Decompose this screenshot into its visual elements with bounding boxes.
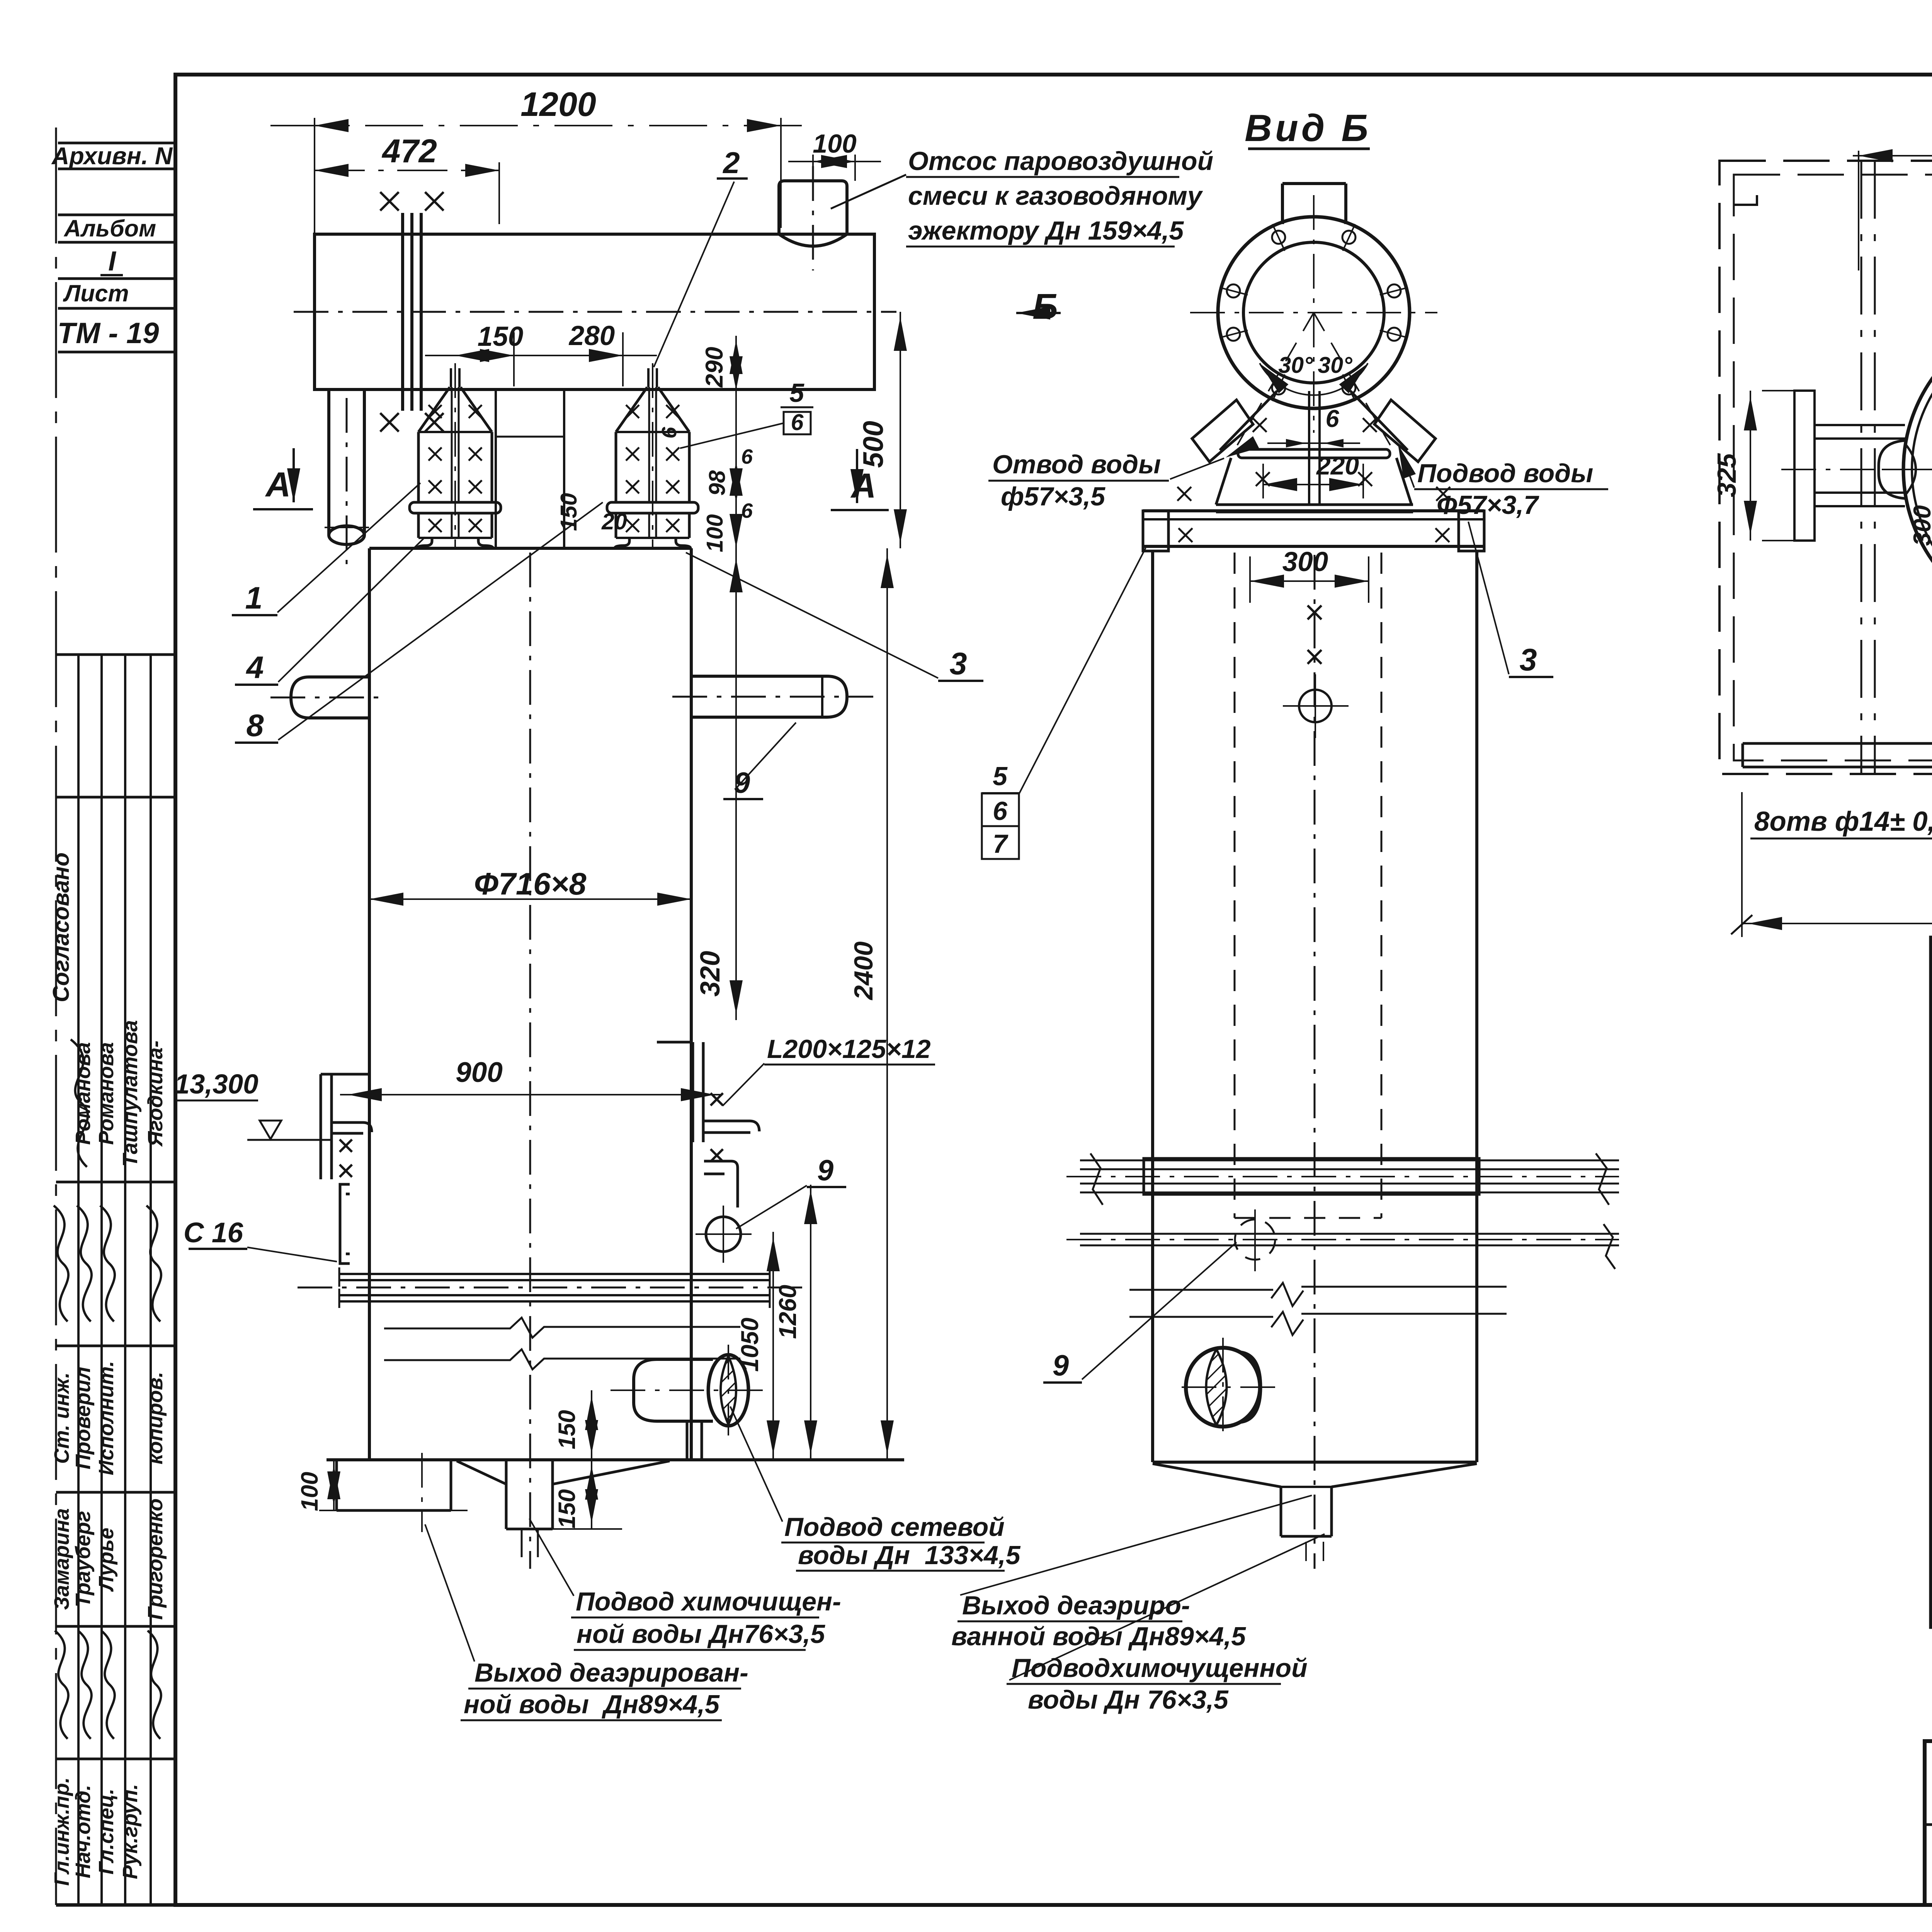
svg-text:320: 320 [695,951,726,997]
dims 1050 1260 2400 vertical [772,1232,774,1460]
support poz.1 at x=1689 [647,368,650,387]
L-bracket right with label [692,1042,694,1142]
svg-text:1200: 1200 [520,85,596,123]
svg-text:А: А [265,466,291,504]
svg-text:Ягодкина-: Ягодкина- [144,1041,167,1147]
svg-text:Гл.спец.: Гл.спец. [95,1789,118,1875]
svg-text:Нач.отд.: Нач.отд. [71,1785,95,1878]
svg-text:8: 8 [246,708,264,743]
beams through column [340,1273,769,1275]
svg-text:смеси к газоводяному: смеси к газоводяному [908,181,1203,211]
svg-text:ной воды Дн76×3,5: ной воды Дн76×3,5 [577,1619,825,1649]
svg-text:I: I [108,246,116,277]
dim 500 [900,312,901,548]
svg-text:эжектору Дн 159×4,5: эжектору Дн 159×4,5 [908,216,1184,245]
svg-text:Проверил: Проверил [71,1367,95,1469]
svg-text:150: 150 [554,1410,580,1449]
L-bracket left + elevation 13,300 [320,1074,322,1179]
view B column [1151,551,1154,1462]
svg-text:Архивн. N: Архивн. N [51,143,173,170]
front view: deaerator head tank [315,234,874,389]
svg-text:98: 98 [704,470,730,496]
svg-text:Ст. инж.: Ст. инж. [50,1372,73,1464]
svg-text:100: 100 [813,129,857,158]
svg-text:150: 150 [554,1489,580,1529]
svg-text:6: 6 [658,427,681,439]
dim 1200 [314,118,315,234]
break lines column [384,1318,740,1338]
hidden pipe dashed [1234,553,1236,1218]
bottom network-water nozzle with hatched face [634,1359,713,1421]
svg-text:290: 290 [701,347,728,388]
svg-text:Рук.груп.: Рук.груп. [119,1784,142,1879]
svg-text:2400: 2400 [849,941,878,1000]
svg-text:500: 500 [858,421,889,468]
svg-text:9: 9 [817,1154,833,1187]
svg-text:Ф57×3,7: Ф57×3,7 [1437,490,1539,520]
svg-text:Б: Б [1032,286,1058,327]
svg-text:6: 6 [741,445,753,468]
svg-text:копиров.: копиров. [144,1372,167,1464]
svg-text:4: 4 [245,650,264,685]
svg-text:Лурье: Лурье [95,1528,118,1592]
nozzle below tank left [327,389,330,535]
svg-text:воды Дн 133×4,5: воды Дн 133×4,5 [798,1541,1021,1570]
svg-text:3: 3 [1519,643,1537,677]
specification table [1931,937,1932,1627]
svg-text:Отсос паровоздушной: Отсос паровоздушной [908,146,1213,176]
corner cleats [1734,175,1932,205]
svg-text:2: 2 [722,146,740,180]
lower angle under right L-bracket [704,1161,738,1207]
upper beam через view B [1144,1158,1479,1194]
svg-text:220: 220 [1316,451,1359,480]
svg-text:5: 5 [993,762,1008,791]
bolts [1388,284,1401,298]
svg-text:300: 300 [1909,505,1932,546]
svg-text:Подвод сетевой: Подвод сетевой [784,1512,1005,1542]
left leg [335,1460,338,1510]
svg-text:150: 150 [556,493,582,531]
view B flange circles [1218,217,1410,408]
svg-text:Согласовано: Согласовано [48,852,74,1002]
skirt cone [1220,391,1408,450]
svg-text:Подвод воды: Подвод воды [1417,459,1593,488]
bottom hatched nozzle view B [1186,1348,1260,1427]
svg-text:280: 280 [568,321,615,351]
svg-text:1260: 1260 [774,1285,801,1339]
bottom rail [1743,742,1932,745]
svg-text:С 16: С 16 [184,1217,243,1248]
svg-text:1050: 1050 [736,1318,764,1372]
dashed plug circle + leader 9 [1235,1219,1275,1260]
svg-text:325: 325 [1712,453,1742,497]
vapor outlet stub poz.2 [779,181,847,234]
svg-text:Подводхимочущенной: Подводхимочущенной [1012,1653,1308,1683]
side stubs (poz 9 zaglushka) [291,677,369,718]
svg-text:Исполнит.: Исполнит. [95,1361,118,1475]
support poz.1 at x=1178 [450,368,452,387]
top stub [1281,184,1284,224]
30 30 marks [1237,313,1390,445]
svg-text:9: 9 [1053,1349,1069,1382]
svg-text:Лист: Лист [63,280,129,306]
svg-text:L200×125×12: L200×125×12 [767,1034,931,1064]
svg-text:100: 100 [296,1472,323,1511]
dim 100 (stub) [812,155,814,176]
bottom outlet stub [505,1461,508,1529]
svg-text:8отв ф14± 0,24: 8отв ф14± 0,24 [1754,806,1932,837]
svg-text:Григоренко: Григоренко [144,1498,167,1620]
svg-text:Вид Б: Вид Б [1245,107,1371,149]
svg-text:1: 1 [245,581,262,616]
phantom frame [1719,161,1932,774]
break marks view B [1271,1283,1303,1306]
svg-text:472: 472 [381,133,437,170]
x marks view B [1253,418,1267,432]
plug circle poz9 lower [706,1217,741,1252]
left stamp strip [56,128,175,1905]
leader vyhod deaerirovannoy right [960,1495,1312,1595]
leader: podvod setevoy vody [730,1406,782,1522]
svg-text:100: 100 [702,514,728,553]
svg-text:Подвод химочищен-: Подвод химочищен- [576,1587,841,1616]
leader to vapor text [831,175,906,209]
nozzle down-stub [686,1421,689,1459]
svg-text:воды Дн 76×3,5: воды Дн 76×3,5 [1028,1685,1229,1714]
svg-text:Отвод воды: Отвод воды [992,450,1161,479]
svg-text:150: 150 [478,321,523,352]
svg-text:Выход деаэрирован-: Выход деаэрирован- [474,1658,748,1687]
svg-text:6: 6 [741,499,753,522]
signatures [54,1206,68,1321]
base plate [1143,509,1484,512]
svg-text:Романова: Романова [95,1042,118,1145]
svg-text:300: 300 [1282,547,1328,577]
svg-text:Альбом: Альбом [63,215,156,241]
view B bottom cone [1153,1461,1477,1464]
svg-text:30°: 30° [1278,352,1313,378]
svg-text:6: 6 [1325,405,1339,432]
big circle [1903,312,1932,627]
svg-text:5: 5 [789,378,804,408]
C16 channel left [340,1184,350,1264]
svg-text:6: 6 [993,796,1008,826]
svg-text:3: 3 [949,646,967,681]
svg-text:Замарина: Замарина [50,1508,73,1610]
dims 290 98 100 (support) [735,336,737,553]
svg-text:7: 7 [993,829,1009,859]
lower beam lines [1080,1233,1619,1235]
svg-text:ной воды Дн89×4,5: ной воды Дн89×4,5 [464,1690,720,1719]
svg-text:ф57×3,5: ф57×3,5 [1001,482,1105,511]
leader: vyhod deaerirovannoy [425,1524,474,1662]
central rib [1308,391,1310,505]
leader: podvod himochishchennoy [529,1519,574,1596]
side gusset flaps [1192,400,1253,462]
svg-text:20: 20 [601,509,627,534]
svg-text:ванной воды Дн89×4,5: ванной воды Дн89×4,5 [951,1622,1246,1651]
column bottom + cone + legs [327,1458,904,1461]
svg-text:ТМ - 19: ТМ - 19 [58,317,159,350]
svg-text:6: 6 [791,410,804,435]
svg-text:30°: 30° [1318,352,1352,378]
svg-text:Ташпулатова: Ташпулатова [119,1020,142,1167]
svg-text:Гл.инж.пр.: Гл.инж.пр. [50,1777,73,1886]
leader podvod himochishchennoy right [1009,1534,1325,1680]
left bracket assembly [1794,391,1815,541]
tank axis [294,311,896,313]
title block [1925,1741,1932,1905]
dims 325 300 400 70 [1750,391,1751,541]
flange on tank [401,213,404,411]
COLUMN BODY [369,547,691,550]
svg-text:Ф716×8: Ф716×8 [474,867,587,901]
dim 472 [498,162,500,224]
svg-text:Трауберг: Трауберг [71,1511,95,1607]
small hole circle [1299,690,1332,722]
svg-text:Выход деаэриро-: Выход деаэриро- [962,1591,1190,1620]
head neck between supports [495,389,497,548]
svg-text:900: 900 [456,1057,503,1088]
svg-text:13,300: 13,300 [174,1069,258,1100]
